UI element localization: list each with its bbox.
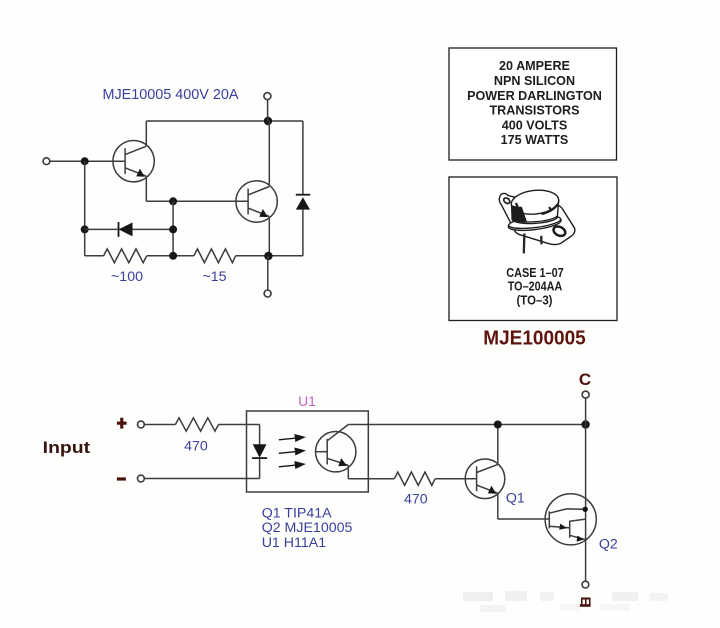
- box: optocoupler U1 outline: [247, 411, 369, 492]
- svg-text:~15: ~15: [202, 269, 226, 285]
- cap chamfer tick left: [516, 203, 518, 207]
- node: junction dot on emitter/base wire: [169, 197, 177, 205]
- phototransistor inside U1: [316, 425, 356, 479]
- svg-text:CASE 1–07: CASE 1–07: [506, 266, 564, 280]
- resistor ~100: [104, 249, 147, 263]
- wire: minus terminal to LED cathode: [144, 478, 259, 480]
- svg-text:Input: Input: [43, 438, 91, 457]
- box: spec box: [449, 48, 617, 160]
- wire: R4 to Q1 base: [435, 478, 476, 480]
- svg-text:NPN SILICON: NPN SILICON: [494, 74, 575, 88]
- svg-text:U1 H11A1: U1 H11A1: [262, 535, 327, 551]
- svg-text:TO–204AA: TO–204AA: [508, 280, 563, 294]
- box: case box: [449, 177, 617, 321]
- wire: left input to Q1 base bar: [50, 160, 125, 162]
- LED inside U1: [252, 425, 267, 479]
- node: junction dot at diode cathode row: [81, 225, 89, 233]
- svg-text:(TO–3): (TO–3): [517, 293, 553, 307]
- svg-text:175 WATTS: 175 WATTS: [501, 133, 569, 147]
- diode D2 (collector-emitter clamp, cathode up): [296, 121, 310, 256]
- mounting hole large: [552, 225, 567, 238]
- watermark smudges bottom right: [463, 591, 668, 612]
- light arrows inside U1: [279, 435, 304, 468]
- transistor Q1 (upper driver of darlington): [113, 121, 154, 201]
- wire: bottom rail left segment: [85, 255, 104, 257]
- node: junction dot C rail: [581, 420, 589, 428]
- svg-text:Q1: Q1: [506, 490, 525, 506]
- svg-text:U1: U1: [298, 394, 316, 409]
- label: case text: [506, 266, 564, 308]
- wire: top rail: [146, 120, 303, 122]
- svg-text:Q2 MJE10005: Q2 MJE10005: [262, 520, 353, 536]
- node: Q2 collector junction dot: [583, 507, 588, 512]
- wire: vertical from base-wire junction down to bottom rail: [172, 201, 174, 256]
- svg-text:20 AMPERE: 20 AMPERE: [499, 59, 570, 73]
- svg-text:C: C: [579, 370, 591, 389]
- mounting hole small: [503, 197, 511, 205]
- label: E rotated: [578, 597, 594, 607]
- terminal: input plus open circle: [138, 421, 145, 428]
- wire: R3 to LED anode: [219, 424, 260, 426]
- node: junction dot diode anode: [169, 225, 177, 233]
- can body: [512, 200, 559, 223]
- svg-text:MJE10005 400V 20A: MJE10005 400V 20A: [102, 87, 238, 103]
- terminal: C open circle: [582, 391, 589, 398]
- cap chamfer tick right: [549, 207, 551, 210]
- pin 2: [540, 236, 543, 245]
- wire: C terminal stub: [585, 398, 587, 424]
- wire: main vertical C-to-E through Q2: [585, 425, 587, 582]
- wire: emitter stub to bottom terminal: [267, 256, 269, 290]
- svg-text:Q1 TIP41A: Q1 TIP41A: [262, 505, 332, 521]
- terminal: left input open circle: [43, 158, 50, 165]
- resistor R4 470 (base of Q1): [394, 472, 435, 485]
- label: parts list Q1 TIP41A etc: [262, 505, 353, 550]
- terminal: input minus open circle: [138, 475, 145, 482]
- resistor R3 470 (input): [175, 418, 218, 431]
- resistor ~15: [194, 249, 236, 263]
- terminal: top collector open circle: [264, 93, 271, 100]
- wire: bottom rail right segment: [236, 255, 303, 257]
- svg-text:~100: ~100: [111, 269, 143, 285]
- skirt upper rim: [508, 214, 561, 231]
- node: junction dot bottom rail: [169, 252, 177, 260]
- can seam line: [512, 216, 557, 222]
- wire: Q1 emitter to Q2 base: [146, 200, 248, 202]
- shading left band: [512, 205, 527, 222]
- wire: collector stub to top terminal: [267, 100, 269, 121]
- flange: [499, 193, 575, 244]
- terminal: bottom emitter open circle: [264, 290, 271, 297]
- terminal: E open circle: [582, 581, 589, 588]
- wire: left vertical from input junction down to bottom rail: [84, 161, 86, 256]
- package TO-3 case drawing: [499, 188, 575, 253]
- node: junction dot Q1 collector on top rail: [494, 421, 502, 429]
- label: spec text lines: [467, 59, 602, 147]
- cap top: [510, 188, 560, 216]
- pin 1: [523, 234, 526, 254]
- svg-text:Q2: Q2: [599, 536, 618, 552]
- svg-text:TRANSISTORS: TRANSISTORS: [489, 104, 579, 118]
- node: junction dot on input wire: [81, 157, 89, 165]
- transistor Q2 MJE10005 (darlington symbol): [545, 494, 596, 545]
- wire: U1 emitter output to R4: [348, 478, 394, 480]
- svg-text:POWER DARLINGTON: POWER DARLINGTON: [467, 89, 602, 103]
- wire: bottom rail middle segment: [147, 255, 194, 257]
- transistor Q2 (output device of darlington): [236, 121, 277, 256]
- label: minus sign: [117, 477, 126, 480]
- svg-text:MJE100005: MJE100005: [483, 326, 586, 349]
- label: plus sign: [117, 418, 127, 429]
- svg-text:470: 470: [184, 439, 208, 455]
- svg-text:470: 470: [404, 492, 428, 508]
- node: junction dot bottom rail right: [264, 252, 272, 260]
- node: junction dot top rail: [264, 117, 272, 125]
- skirt lower rim: [508, 214, 562, 232]
- wire: U1 collector output top rail to C node: [348, 424, 585, 426]
- transistor Q1 TIP41A: [465, 425, 505, 520]
- wire: Q1 emitter to Q2 base: [498, 518, 550, 520]
- svg-text:400 VOLTS: 400 VOLTS: [502, 118, 568, 132]
- shading under-cap right: [542, 205, 558, 214]
- diode D1 (speed-up diode, cathode left): [85, 222, 173, 237]
- wire: plus terminal to R3: [144, 424, 175, 426]
